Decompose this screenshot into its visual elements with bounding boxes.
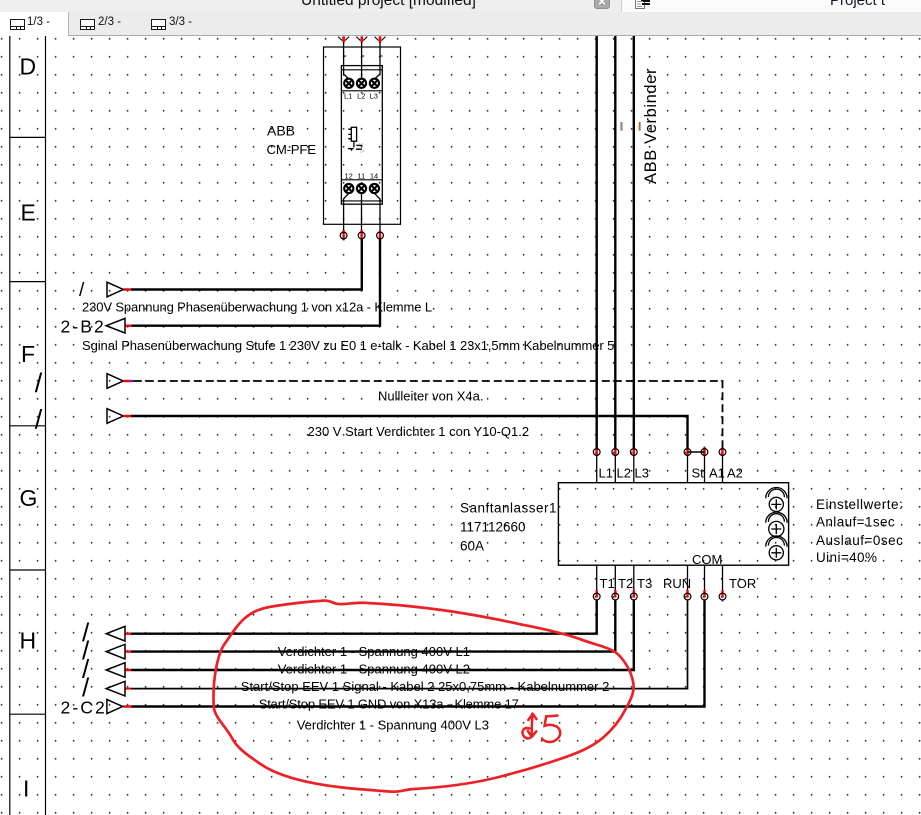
bus wire L1 bbox=[596, 36, 598, 449]
svg-text:ABB: ABB bbox=[267, 123, 295, 139]
terminal circle 12 bbox=[340, 232, 383, 239]
pigtail from screw 12 to terminal circle bbox=[344, 193, 380, 232]
red terminal stub neutral bbox=[124, 380, 131, 382]
pin stubs soft starter bottom bbox=[597, 565, 723, 593]
pin ticks bbox=[344, 55, 383, 57]
CM-PFE top terminal section line bbox=[341, 90, 382, 92]
red stub RUN wire bbox=[125, 688, 131, 690]
relay measuring element symbol bbox=[348, 127, 363, 149]
svg-text:11: 11 bbox=[357, 172, 365, 181]
wire conductor T3 to arrow bbox=[131, 600, 634, 670]
svg-text:E: E bbox=[21, 199, 36, 225]
svg-text:Sanftanlasser1: Sanftanlasser1 bbox=[460, 501, 557, 516]
svg-text:/: / bbox=[82, 673, 90, 703]
svg-text:L3: L3 bbox=[370, 92, 378, 101]
svg-text:RUN: RUN bbox=[663, 576, 691, 591]
svg-text:ABB Verbinder: ABB Verbinder bbox=[642, 68, 660, 184]
op: CM-PFE component U1 outer envelope bbox=[324, 47, 401, 224]
svg-text:Uini=40%: Uini=40% bbox=[816, 550, 877, 565]
link wire St to A1 bbox=[688, 451, 705, 453]
row separator G/H bbox=[10, 569, 46, 571]
folio arrow T1 wire bbox=[106, 626, 125, 641]
project panel icon bbox=[635, 0, 651, 9]
blue segment neutral bbox=[131, 380, 134, 382]
red stub T2 wire bbox=[125, 650, 131, 652]
red stub T1 wire bbox=[125, 633, 131, 635]
screw terminal 14 bbox=[370, 184, 379, 193]
screw terminal L3 bbox=[370, 79, 379, 88]
svg-text:CM-PFE: CM-PFE bbox=[267, 142, 317, 157]
folio arrow T2 wire bbox=[106, 644, 125, 659]
svg-text:Sginal Phasenüberwachung Stufe: Sginal Phasenüberwachung Stufe 1 230V zu… bbox=[82, 338, 614, 353]
svg-text:St: St bbox=[692, 466, 705, 481]
svg-text:117112660: 117112660 bbox=[460, 520, 526, 535]
screw terminal L1 bbox=[344, 79, 379, 193]
wire conductor from pin 11 to folio arrow row1 bbox=[131, 239, 362, 290]
svg-text:Nullleiter von X4a.: Nullleiter von X4a. bbox=[378, 389, 484, 404]
svg-text:L1: L1 bbox=[599, 466, 613, 481]
CM-PFE body bbox=[341, 66, 382, 205]
folio arrow T3 wire bbox=[106, 663, 125, 678]
svg-text:I: I bbox=[23, 776, 29, 802]
blue hint tick under TOR bbox=[722, 600, 724, 602]
svg-text:14: 14 bbox=[360, 149, 366, 154]
soft starter U2 body bbox=[558, 483, 788, 566]
pin stubs soft starter top bbox=[597, 455, 723, 482]
relay contact arrow tick bbox=[350, 149, 353, 151]
svg-text:L2: L2 bbox=[357, 92, 365, 101]
red terminal stub start-wire bbox=[124, 415, 131, 417]
terminal circle 14 bbox=[377, 232, 384, 239]
CM-PFE bottom mounting band bbox=[341, 200, 382, 202]
red terminal stub 2-B2 bbox=[125, 325, 131, 327]
svg-text:G: G bbox=[20, 485, 38, 511]
svg-text:Verdichter 1 - Spannung 400V L: Verdichter 1 - Spannung 400V L3 bbox=[297, 718, 489, 733]
svg-text:/: / bbox=[35, 405, 43, 435]
svg-text:60A: 60A bbox=[460, 539, 484, 554]
window chrome bbox=[0, 0, 921, 12]
svg-text:Verdichter 1 - Spannung 400V L: Verdichter 1 - Spannung 400V L1 bbox=[278, 644, 470, 659]
bus wire L3 bbox=[633, 36, 635, 449]
folio reference arrow 2-B2 bbox=[106, 318, 125, 333]
terminal circles soft starter top L1 L2 L3 St A1 A2 bbox=[593, 449, 726, 456]
potentiometer adjust symbol P1 bbox=[766, 488, 787, 512]
CM-PFE top mounting band bbox=[341, 69, 382, 71]
svg-text:T3: T3 bbox=[637, 576, 652, 591]
svg-text:H: H bbox=[20, 628, 37, 654]
svg-text:Start/Stop EEV 1 Signal - Kabe: Start/Stop EEV 1 Signal - Kabel 2 25x0,7… bbox=[241, 679, 610, 694]
pigtail from screw 14 bbox=[374, 193, 380, 232]
row separator E/F bbox=[10, 281, 46, 283]
red markup updown arrow bbox=[522, 714, 536, 739]
red pin markers at soft starter top terminals bbox=[597, 448, 723, 456]
svg-text:Start/Stop EEV 1 GND von X13a: Start/Stop EEV 1 GND von X13a - Klemme 1… bbox=[259, 696, 519, 711]
svg-text:A1: A1 bbox=[709, 466, 725, 481]
wire conductor RUN to arrow bbox=[131, 600, 688, 689]
CM-PFE bottom terminal section line bbox=[341, 179, 382, 181]
wire conductor T1 to arrow bbox=[131, 600, 597, 634]
relay contact symbol bbox=[353, 141, 355, 147]
svg-text:/: / bbox=[35, 368, 43, 398]
folio reference arrow row1 bbox=[107, 282, 123, 297]
svg-text:14: 14 bbox=[370, 172, 378, 181]
svg-text:Einstellwerte:: Einstellwerte: bbox=[816, 497, 903, 512]
wire pigtail into L1 screw bbox=[344, 42, 383, 79]
svg-text:L3: L3 bbox=[635, 466, 649, 481]
folio arrow 2-C2 bbox=[107, 699, 123, 713]
svg-text:L1: L1 bbox=[344, 92, 352, 101]
svg-text:12: 12 bbox=[359, 142, 365, 147]
red pin markers at soft starter bottom terminals bbox=[597, 590, 723, 598]
frame right border line of row-letter band bbox=[45, 36, 47, 815]
svg-text:D: D bbox=[20, 54, 37, 80]
red stub COM wire bbox=[123, 705, 132, 707]
wire conductor from pin 14 to folio arrow 2-B2 bbox=[131, 239, 380, 326]
wire number tag I on bus L2 bbox=[621, 122, 622, 131]
wire conductor 230V start to St bbox=[131, 416, 688, 449]
potentiometer adjust symbol P3 bbox=[766, 536, 787, 560]
folio reference arrow start-wire bbox=[107, 409, 123, 424]
screw terminal 12 bbox=[344, 184, 353, 193]
folio arrow RUN wire bbox=[106, 681, 125, 696]
svg-text:COM: COM bbox=[692, 552, 722, 567]
svg-text:/: / bbox=[79, 280, 85, 301]
svg-text:2-B2: 2-B2 bbox=[61, 317, 106, 337]
svg-text:F: F bbox=[21, 341, 35, 367]
screw terminal L2 bbox=[357, 79, 366, 88]
screw terminal 11 bbox=[357, 184, 366, 193]
svg-text:Anlauf=1sec: Anlauf=1sec bbox=[816, 515, 895, 530]
svg-text:A2: A2 bbox=[727, 466, 743, 481]
red stub T3 wire bbox=[125, 669, 131, 671]
blue hint tick under terminal 12 bbox=[343, 239, 345, 241]
row separator D/E bbox=[10, 136, 46, 138]
frame left border line bbox=[9, 36, 11, 815]
row separator F/G bbox=[10, 425, 46, 427]
svg-text:TOR: TOR bbox=[729, 576, 756, 591]
dashed neutral conductor to A2 bbox=[134, 381, 723, 449]
svg-text:L2: L2 bbox=[617, 466, 631, 481]
blue hint tick at A1 bbox=[704, 447, 706, 449]
svg-text:Auslauf=0sec: Auslauf=0sec bbox=[816, 533, 903, 548]
terminal circles soft starter bottom bbox=[593, 593, 726, 600]
row separator H/I bbox=[10, 713, 46, 715]
terminal circle 11 bbox=[358, 232, 365, 239]
terminal pin marker top 1 bbox=[344, 36, 380, 42]
svg-text:T1: T1 bbox=[600, 576, 615, 591]
wire pigtail into L3 screw bbox=[374, 42, 380, 79]
svg-text:12: 12 bbox=[344, 172, 352, 181]
wire pigtail into L2 screw bbox=[361, 42, 363, 78]
wire conductor COM to arrow bbox=[132, 600, 705, 707]
svg-text:T2: T2 bbox=[618, 576, 633, 591]
wire conductor T2 to arrow bbox=[131, 600, 615, 652]
red hand-drawn markup ellipse bbox=[214, 601, 634, 792]
svg-text:230 V Start Verdichter 1 con Y: 230 V Start Verdichter 1 con Y10-Q1.2 bbox=[308, 424, 530, 439]
bus wire L2 bbox=[614, 36, 616, 449]
wire number tag I on bus L3 bbox=[639, 122, 640, 131]
folio reference arrow neutral (dashed) bbox=[107, 374, 123, 389]
svg-text:Verdichter 1 - Spannung 400V L: Verdichter 1 - Spannung 400V L2 bbox=[278, 661, 470, 676]
red markup digit 5 bbox=[542, 716, 560, 742]
terminal tick marks top bbox=[338, 37, 385, 41]
potentiometer adjust symbol P2 bbox=[766, 512, 787, 536]
pigtail from screw 11 bbox=[361, 193, 363, 232]
red pin markers at CM-PFE bottom terminals bbox=[344, 230, 380, 238]
red terminal stub row1 bbox=[124, 288, 131, 290]
